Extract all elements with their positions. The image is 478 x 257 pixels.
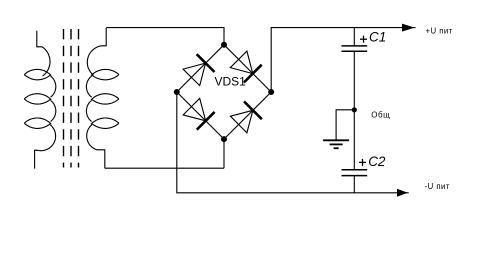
svg-text:C2: C2 (368, 154, 386, 169)
svg-text:C1: C1 (369, 30, 386, 45)
svg-text:VDS1: VDS1 (215, 74, 247, 88)
svg-text:+U пит: +U пит (426, 27, 453, 36)
svg-text:-U пит: -U пит (425, 182, 450, 191)
svg-text:Общ: Общ (371, 110, 390, 119)
